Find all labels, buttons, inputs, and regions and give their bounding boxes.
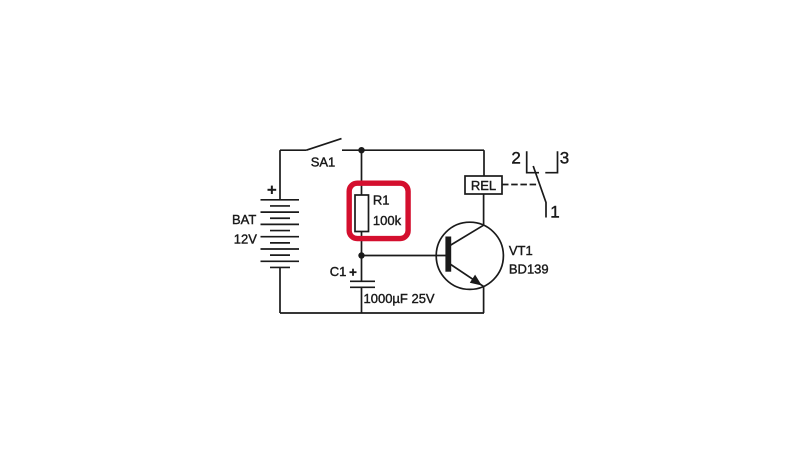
- switch SA1 blade: [306, 139, 341, 151]
- svg-text:C1: C1: [330, 264, 347, 279]
- capacitor plus sign: [350, 269, 357, 276]
- transistor emitter arrowhead: [470, 275, 482, 286]
- wire bottom rail: [280, 312, 484, 314]
- wire top-left horizontal from battery to switch: [280, 149, 306, 151]
- svg-text:3: 3: [560, 148, 569, 167]
- junction node at base/R1/C1: [358, 252, 364, 258]
- red highlight around R1: [349, 183, 408, 238]
- svg-text:1: 1: [550, 202, 559, 221]
- wire top rail to relay coil: [483, 150, 485, 176]
- svg-text:SA1: SA1: [311, 155, 336, 170]
- wire emitter to bottom rail: [483, 286, 485, 313]
- transistor VT1 circle: [436, 222, 503, 289]
- battery BAT plates: [261, 200, 300, 268]
- relay coil REL box: [465, 176, 502, 194]
- junction node at switch output: [358, 147, 364, 153]
- svg-text:BAT: BAT: [232, 212, 256, 227]
- wire node top to resistor R1: [361, 150, 363, 195]
- relay dashed actuation link: [502, 184, 537, 186]
- transistor base bar: [445, 237, 451, 272]
- svg-text:2: 2: [511, 148, 520, 167]
- svg-text:BD139: BD139: [509, 261, 549, 276]
- wire capacitor to bottom rail: [361, 287, 363, 313]
- wire resistor to node B: [361, 232, 363, 256]
- relay contact pin 2: [527, 151, 539, 172]
- relay contact arm to pin 1: [533, 166, 546, 218]
- relay contact pin 3: [545, 151, 557, 172]
- wire node B to transistor base: [362, 255, 447, 257]
- transistor emitter diagonal: [450, 264, 484, 286]
- svg-text:R1: R1: [373, 193, 390, 208]
- resistor R1 body: [355, 195, 369, 232]
- wire switch right contact to relay drop: [342, 149, 484, 151]
- capacitor C1 plates: [350, 281, 375, 287]
- svg-text:12V: 12V: [234, 231, 257, 246]
- svg-text:100k: 100k: [373, 213, 402, 228]
- battery plus sign: [268, 186, 277, 194]
- wire battery negative lead: [279, 267, 281, 313]
- transistor collector diagonal: [450, 225, 484, 245]
- svg-text:1000µF 25V: 1000µF 25V: [364, 291, 435, 306]
- wire battery positive lead: [279, 150, 281, 200]
- svg-text:REL: REL: [471, 178, 496, 193]
- svg-text:VT1: VT1: [509, 243, 533, 258]
- wire node B to capacitor C1: [361, 256, 363, 282]
- wire collector to relay coil: [483, 194, 485, 225]
